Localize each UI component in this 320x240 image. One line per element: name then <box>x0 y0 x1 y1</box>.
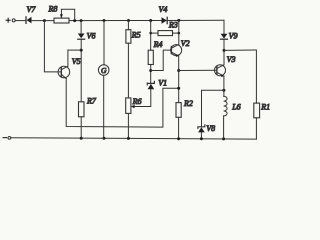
zener V1 <box>147 81 154 89</box>
node N <box>177 87 180 90</box>
node R <box>127 137 130 140</box>
node Q <box>103 137 106 140</box>
wire V2 base <box>151 50 172 70</box>
wire V6 column top <box>80 21 82 34</box>
wire R5 column <box>127 21 129 30</box>
svg-text:R2: R2 <box>183 99 193 108</box>
plus terminal <box>6 18 11 23</box>
wire R3 right <box>173 32 179 34</box>
svg-text:R5: R5 <box>131 30 141 39</box>
minus terminal <box>3 137 8 138</box>
svg-text:R7: R7 <box>86 97 97 106</box>
wire V3 collector <box>223 50 225 64</box>
node B <box>73 19 76 22</box>
wire to R1 <box>224 50 256 103</box>
inductor L6 <box>224 96 228 116</box>
node F <box>149 19 152 22</box>
diode V7 <box>26 17 32 24</box>
diode V9 <box>221 34 228 39</box>
node I <box>80 49 83 52</box>
svg-text:R3: R3 <box>168 21 178 30</box>
wire <box>150 65 152 84</box>
svg-text:R1: R1 <box>260 102 270 111</box>
node T <box>200 137 203 140</box>
resistor R6 <box>126 98 131 114</box>
node M <box>177 69 180 72</box>
node E <box>127 19 130 22</box>
svg-text:R8: R8 <box>48 4 58 13</box>
node U <box>222 137 225 140</box>
wire bottom rail <box>11 138 257 139</box>
resistor R5 <box>126 30 131 44</box>
wire <box>15 20 26 22</box>
svg-text:V8: V8 <box>206 124 215 133</box>
wire <box>255 118 257 139</box>
wire <box>127 43 129 98</box>
svg-text:V3: V3 <box>227 55 236 64</box>
node L <box>149 69 152 72</box>
resistor R2 <box>176 103 181 118</box>
node S <box>177 137 180 140</box>
zener V8 <box>198 125 205 133</box>
wire R3 left <box>151 32 158 34</box>
wire V9 column <box>223 20 225 34</box>
resistor R7 <box>79 102 85 117</box>
svg-text:R4: R4 <box>153 40 163 49</box>
wire <box>223 116 225 139</box>
node G <box>177 19 180 22</box>
resistor R8 <box>54 18 69 23</box>
svg-text:L6: L6 <box>231 103 240 112</box>
wire R4 column <box>150 21 152 51</box>
resistor R1 <box>254 103 260 118</box>
svg-text:R6: R6 <box>132 97 142 106</box>
svg-text:V4: V4 <box>159 5 168 14</box>
wire V5 emitter down <box>66 79 179 128</box>
transistor V2 <box>171 44 182 57</box>
wire V5 base from node A <box>44 21 58 72</box>
wire V8 branch <box>202 90 224 126</box>
wire <box>32 20 55 22</box>
node H <box>223 49 226 52</box>
transistor V3 <box>215 65 226 77</box>
wire <box>200 132 202 138</box>
wire <box>127 113 129 138</box>
resistor R4 <box>148 50 153 64</box>
svg-text:V1: V1 <box>158 78 167 87</box>
svg-text:V9: V9 <box>229 31 238 40</box>
wire R8 wiper loop <box>61 9 74 19</box>
node D <box>103 19 106 22</box>
node C <box>80 19 83 22</box>
wire <box>223 39 225 64</box>
wire V3 base <box>179 69 217 71</box>
svg-text:G: G <box>101 66 107 75</box>
diode V4 <box>162 17 168 23</box>
svg-text:V7: V7 <box>27 5 37 14</box>
node O <box>222 89 225 92</box>
wire V2 collector <box>178 20 180 44</box>
wire <box>178 117 180 139</box>
svg-text:V2: V2 <box>181 39 190 48</box>
diode V6 <box>78 34 85 40</box>
wire V2 emitter to R2 <box>178 56 180 103</box>
wire <box>80 39 82 102</box>
wire <box>167 19 224 21</box>
wire V1 to R6 wiper <box>134 89 151 106</box>
wire <box>69 20 162 22</box>
node A <box>43 19 46 22</box>
wire V3 emitter <box>223 76 225 96</box>
node K <box>178 32 181 35</box>
svg-text:V6: V6 <box>87 32 96 41</box>
node P <box>80 137 83 140</box>
galvanometer G <box>98 21 109 139</box>
transistor V5 <box>58 66 70 78</box>
node J <box>149 32 152 35</box>
wire V5 collector <box>67 50 69 66</box>
wire collector to V6 column <box>68 49 81 51</box>
resistor R3 <box>158 31 173 36</box>
wire <box>80 117 82 139</box>
svg-text:V5: V5 <box>72 57 81 66</box>
